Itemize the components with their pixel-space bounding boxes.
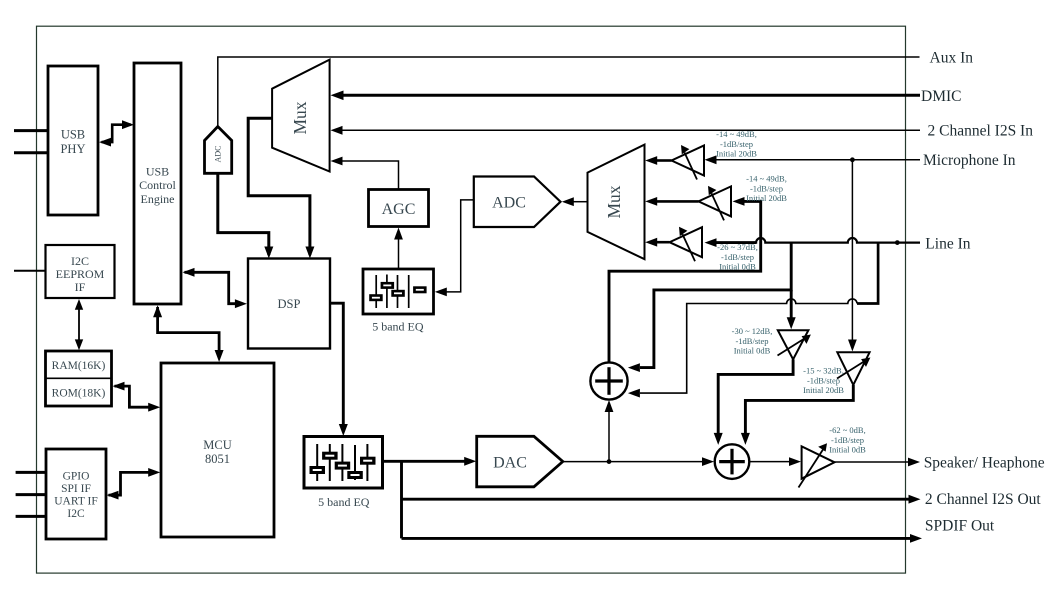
svg-text:DSP: DSP bbox=[278, 297, 301, 311]
block USB PHY bbox=[48, 66, 98, 215]
right Mux trapezoid bbox=[588, 145, 645, 260]
wire GPIO to MCU zigzag bbox=[107, 468, 161, 500]
wire RAM/ROM to MCU zigzag bbox=[113, 382, 161, 412]
wire right Mux to ADC bbox=[562, 197, 588, 206]
ADC pentagon bbox=[474, 177, 561, 228]
wire summer1 output to mix amp node bbox=[609, 197, 761, 363]
wire output amp to Speaker/Headphone bbox=[835, 458, 921, 467]
small ADC pentagon (Aux path) bbox=[205, 127, 232, 174]
block DSP bbox=[248, 259, 330, 349]
gain label line amp bbox=[717, 242, 758, 272]
wire left Mux output to DSP bbox=[248, 118, 314, 258]
svg-text:5 band EQ: 5 band EQ bbox=[318, 495, 370, 509]
svg-text:-1dB/step: -1dB/step bbox=[831, 435, 864, 445]
-15~32dB amp triangle bbox=[837, 352, 870, 385]
wire Line In tap to summer1 lower input bbox=[628, 243, 878, 398]
svg-text:EEPROM: EEPROM bbox=[56, 267, 105, 281]
left Mux trapezoid bbox=[272, 60, 330, 172]
gain label mix amp bbox=[746, 174, 787, 204]
svg-text:8051: 8051 bbox=[205, 452, 230, 466]
wire -30dB amp output to summer2 bbox=[714, 359, 793, 445]
wire playback split to digital outputs bbox=[400, 461, 403, 538]
svg-text:Initial 20dB: Initial 20dB bbox=[746, 193, 787, 203]
svg-text:I2C: I2C bbox=[67, 508, 85, 520]
gain label mic amp bbox=[716, 129, 757, 159]
block USB Control Engine bbox=[134, 63, 181, 304]
wire DAC output to summer2 bbox=[563, 457, 714, 466]
wire DMIC input to left Mux bbox=[331, 91, 921, 101]
wire mix amp to right Mux bbox=[645, 197, 698, 206]
playback 5 band EQ box bbox=[304, 437, 383, 510]
svg-text:-30 ~ 12dB,: -30 ~ 12dB, bbox=[732, 326, 773, 336]
svg-text:Initial 20dB: Initial 20dB bbox=[716, 149, 757, 159]
svg-text:UART IF: UART IF bbox=[54, 496, 98, 508]
wire I2C EEPROM stub bbox=[14, 270, 46, 272]
wire line amp to right Mux bbox=[645, 238, 669, 247]
wire Aux In to small ADC bbox=[218, 57, 920, 128]
block RAM ROM bbox=[46, 351, 112, 406]
svg-text:-1dB/step: -1dB/step bbox=[735, 336, 768, 346]
wire ADC to record 5 band EQ bbox=[435, 200, 474, 296]
output amp triangle (-62~0dB) bbox=[799, 443, 835, 487]
wire 2 Channel I2S Out bbox=[402, 495, 921, 504]
svg-text:AGC: AGC bbox=[382, 201, 416, 218]
wire summer2 to output amp bbox=[750, 457, 802, 466]
wire mic junction to -15dB amp bbox=[848, 160, 857, 352]
svg-text:-1dB/step: -1dB/step bbox=[807, 375, 840, 385]
block GPIO SPI UART I2C bbox=[46, 449, 106, 539]
gain label output amp bbox=[829, 425, 866, 455]
svg-text:ROM(18K): ROM(18K) bbox=[52, 388, 106, 400]
block MCU 8051 bbox=[161, 363, 274, 537]
svg-text:MCU: MCU bbox=[203, 438, 231, 452]
wire AGC to left Mux bbox=[331, 157, 399, 190]
summer2 adder circle bbox=[715, 444, 750, 479]
junction dot DAC output bbox=[607, 459, 612, 464]
block AGC bbox=[369, 190, 429, 227]
svg-text:Control: Control bbox=[139, 178, 176, 192]
svg-text:ADC: ADC bbox=[492, 195, 526, 212]
wire small ADC to DSP bbox=[218, 173, 273, 258]
svg-text:Speaker/ Heaphone: Speaker/ Heaphone bbox=[924, 455, 1045, 472]
summer1 adder circle bbox=[590, 362, 627, 399]
svg-text:Microphone In: Microphone In bbox=[923, 152, 1016, 169]
svg-text:GPIO: GPIO bbox=[63, 471, 90, 483]
wire USB input stubs bbox=[14, 131, 48, 153]
wire SPDIF Out bbox=[402, 534, 923, 543]
DAC pentagon bbox=[477, 436, 563, 487]
wire Microphone In to amplifier bbox=[705, 155, 921, 164]
svg-text:RAM(16K): RAM(16K) bbox=[52, 360, 106, 372]
gain label -30~12dB amp bbox=[732, 326, 773, 356]
svg-text:5 band EQ: 5 band EQ bbox=[372, 320, 424, 334]
svg-text:-62 ~ 0dB,: -62 ~ 0dB, bbox=[829, 425, 865, 435]
svg-text:-26 ~ 37dB,: -26 ~ 37dB, bbox=[717, 242, 758, 252]
record 5 band EQ box bbox=[363, 269, 434, 334]
mix amp triangle (-14~49dB) bbox=[699, 186, 732, 221]
gain label -15~32dB amp bbox=[803, 366, 844, 396]
wire DAC output tap to summer1 bbox=[605, 400, 614, 462]
wire 2 Channel I2S In to left Mux bbox=[331, 126, 921, 135]
wire playback 5 band EQ to DAC bbox=[383, 457, 477, 466]
svg-text:-14 ~ 49dB,: -14 ~ 49dB, bbox=[716, 129, 757, 139]
wire Line In tap to summer1 upper input and -30dB amp bbox=[628, 243, 796, 372]
wire DSP to playback 5 band EQ bbox=[330, 303, 348, 436]
svg-text:Initial 0dB: Initial 0dB bbox=[829, 445, 866, 455]
svg-text:-1dB/step: -1dB/step bbox=[750, 183, 783, 193]
-30~12dB amp triangle bbox=[778, 330, 811, 359]
svg-text:I2C: I2C bbox=[71, 254, 89, 268]
svg-text:2 Channel I2S In: 2 Channel I2S In bbox=[928, 123, 1034, 140]
junction dot Microphone In bbox=[850, 157, 855, 162]
svg-text:USB: USB bbox=[146, 165, 169, 179]
wire mic amp to right Mux bbox=[645, 156, 671, 165]
svg-text:DAC: DAC bbox=[493, 455, 527, 472]
wire USB PHY to USB Control Engine bidirectional zigzag bbox=[99, 120, 134, 146]
block I2C EEPROM IF bbox=[46, 245, 115, 298]
svg-text:-15 ~ 32dB,: -15 ~ 32dB, bbox=[803, 366, 844, 376]
svg-text:Mux: Mux bbox=[604, 185, 624, 218]
svg-text:USB: USB bbox=[61, 128, 85, 142]
svg-text:-14 ~ 49dB,: -14 ~ 49dB, bbox=[746, 174, 787, 184]
wire USB Control Engine to MCU bbox=[153, 305, 224, 362]
svg-text:PHY: PHY bbox=[60, 142, 85, 156]
svg-text:2 Channel I2S Out: 2 Channel I2S Out bbox=[925, 491, 1042, 508]
wire Line In to line amp bbox=[705, 238, 921, 247]
svg-text:IF: IF bbox=[75, 280, 86, 294]
svg-text:Engine: Engine bbox=[141, 192, 175, 206]
mic amp triangle (-14~49dB) bbox=[672, 145, 705, 180]
svg-text:Aux In: Aux In bbox=[930, 50, 974, 67]
wire record 5 band EQ to AGC bbox=[394, 228, 403, 270]
wire GPIO stubs bbox=[16, 472, 47, 516]
svg-text:Initial 20dB: Initial 20dB bbox=[803, 385, 844, 395]
svg-text:Initial 0dB: Initial 0dB bbox=[719, 262, 756, 272]
wire I2C EEPROM IF to RAM/ROM double arrow bbox=[75, 299, 83, 350]
svg-text:Initial 0dB: Initial 0dB bbox=[734, 346, 771, 356]
svg-text:-1dB/step: -1dB/step bbox=[720, 139, 753, 149]
svg-text:Line In: Line In bbox=[925, 236, 970, 253]
chip boundary frame bbox=[37, 26, 906, 573]
wire -15dB amp output to summer2 bbox=[741, 385, 853, 445]
svg-text:SPI IF: SPI IF bbox=[61, 483, 91, 495]
wire USB Control Engine to DSP bidirectional zigzag bbox=[183, 268, 247, 308]
junction dot Line In bbox=[895, 240, 900, 245]
svg-text:SPDIF Out: SPDIF Out bbox=[925, 518, 995, 535]
line amp triangle (-26~37dB) bbox=[670, 227, 703, 262]
svg-text:DMIC: DMIC bbox=[921, 88, 961, 105]
svg-text:-1dB/step: -1dB/step bbox=[721, 252, 754, 262]
svg-text:ADC: ADC bbox=[214, 146, 223, 163]
svg-text:Mux: Mux bbox=[290, 101, 310, 134]
